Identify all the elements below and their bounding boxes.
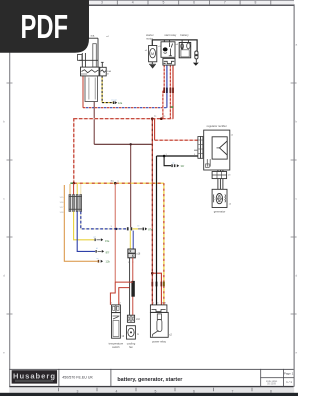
svg-text:start relay: start relay — [164, 33, 176, 37]
svg-text:x18: x18 — [136, 253, 141, 256]
PDF badge — [0, 0, 89, 53]
generator connector — [212, 172, 231, 179]
fan connector — [127, 315, 140, 322]
svg-text:12b: 12b — [106, 259, 111, 263]
svg-text:M: M — [151, 52, 154, 56]
svg-text:x10: x10 — [136, 318, 141, 321]
stubs above pins — [69, 184, 71, 195]
wire: red vertical to regulator feed — [154, 119, 156, 141]
svg-text:12a: 12a — [118, 101, 123, 105]
wire: blue dashed from pin4 — [81, 212, 127, 229]
wire: long red-black vertical to power relay — [151, 119, 153, 305]
black branch to terminal — [164, 156, 171, 166]
gray stub pin — [194, 149, 198, 151]
wire: relay wire4 red — [172, 65, 174, 119]
connector block pins — [69, 195, 82, 212]
svg-text:switch: switch — [112, 345, 120, 349]
svg-text:sw: sw — [172, 163, 175, 165]
svg-text:6: 6 — [193, 1, 195, 5]
svg-text:or: or — [97, 257, 99, 260]
wire: brown from fuse holder — [94, 102, 153, 228]
wire: orange — [64, 185, 97, 261]
svg-text:Page 1: Page 1 — [284, 371, 294, 375]
green segment left of junction — [70, 183, 73, 184]
wire: black horizontal to regulator y=156 — [157, 155, 198, 157]
svg-text:8: 8 — [255, 1, 257, 5]
power relay — [150, 303, 172, 338]
svg-text:generator: generator — [214, 210, 226, 214]
main fuse connector box — [81, 67, 100, 76]
svg-text:sw-ge: sw-ge — [111, 100, 118, 102]
junction dots on red bus — [151, 117, 154, 120]
svg-text:1 / 1: 1 / 1 — [286, 380, 292, 384]
wire: black-yellow from small fuse — [102, 76, 113, 103]
svg-text:5: 5 — [162, 1, 164, 5]
svg-text:m: m — [137, 333, 139, 336]
ground under starter motor — [149, 62, 156, 68]
start relay connector — [163, 58, 175, 65]
wire: yellow from pin2 — [74, 212, 95, 240]
svg-text:power relay: power relay — [152, 339, 167, 343]
regulator rectifier — [194, 124, 234, 170]
wires regulator to generator connector — [218, 170, 223, 172]
red feeds to temperature switch — [115, 281, 133, 283]
wire: red-yellow dashed vertical to power relay — [163, 183, 165, 305]
wire: red dashed main bus y=118.7 — [74, 118, 173, 183]
junction dots on red-yellow wire — [73, 182, 75, 184]
top wire bus — [152, 40, 197, 51]
wire: black from junction down to power relay — [156, 156, 158, 305]
wire: red feed down to temperature switch — [114, 183, 116, 282]
frame: bottom band + dark strip — [0, 388, 298, 396]
main fuse holder — [78, 38, 99, 67]
small fuse 10A — [100, 62, 112, 76]
terminal arrow of black-yellow wire — [111, 100, 123, 105]
start relay — [161, 33, 179, 57]
svg-text:7: 7 — [224, 1, 226, 5]
svg-text:15e: 15e — [105, 239, 110, 243]
wire: relay wire2 blue — [166, 65, 168, 108]
junction brown — [130, 143, 132, 145]
temperature switch — [112, 305, 125, 338]
svg-text:31f: 31f — [181, 164, 185, 168]
inline connector at fan tap — [127, 227, 129, 230]
ground at battery fuse — [193, 63, 199, 66]
svg-text:10A: 10A — [107, 70, 111, 73]
inline fuse near battery — [195, 51, 198, 62]
wire: red dashed to regulator y=140.2 — [155, 139, 198, 141]
fuse holder body — [85, 76, 98, 102]
svg-text:87e: 87e — [148, 227, 153, 231]
logo Husaberg — [12, 370, 58, 383]
junction + branch to power relay pin3 — [151, 272, 154, 275]
wires from tap down to x18 connector — [129, 231, 131, 249]
title block — [9, 369, 294, 387]
fan wires below x18 — [129, 258, 131, 315]
green stub near wire4 — [171, 106, 174, 108]
svg-text:87f: 87f — [106, 251, 110, 255]
wire: red from main fuse down to bus — [82, 76, 84, 108]
svg-text:battery: battery — [180, 33, 189, 37]
svg-text:05-2009: 05-2009 — [267, 383, 276, 386]
wire: red-yellow dashed horizontal y=183.2 — [74, 182, 164, 184]
svg-text:battery, generator, starter: battery, generator, starter — [117, 377, 183, 383]
wires connector to generator — [218, 179, 223, 190]
frame: top column band — [87, 0, 294, 5]
connector marks on power relay feed wires — [151, 282, 153, 287]
wire: relay wire1 red-white — [163, 65, 164, 118]
starter motor M — [145, 33, 162, 62]
svg-text:450/570 FE.EU UK: 450/570 FE.EU UK — [62, 376, 93, 380]
svg-text:30A: 30A — [90, 34, 94, 37]
svg-text:cooling: cooling — [127, 342, 136, 346]
svg-text:Husaberg: Husaberg — [13, 372, 55, 381]
connector x18 — [128, 249, 141, 258]
svg-text:fan: fan — [129, 345, 133, 349]
generator G — [212, 189, 232, 207]
svg-text:3: 3 — [101, 1, 103, 5]
svg-text:PDF: PDF — [21, 8, 69, 45]
svg-text:4: 4 — [132, 1, 134, 5]
svg-text:temperature: temperature — [109, 342, 124, 346]
cooling fan — [127, 326, 140, 339]
inline connector marks on relay wires — [163, 88, 165, 93]
battery — [179, 33, 191, 58]
svg-text:regulator rectifier: regulator rectifier — [207, 124, 227, 128]
wire: red/blue dashed bus y=107.7 — [83, 107, 167, 109]
wire: relay wire3 red-white — [169, 65, 171, 119]
wire: blue solid from pin3 — [77, 212, 95, 252]
